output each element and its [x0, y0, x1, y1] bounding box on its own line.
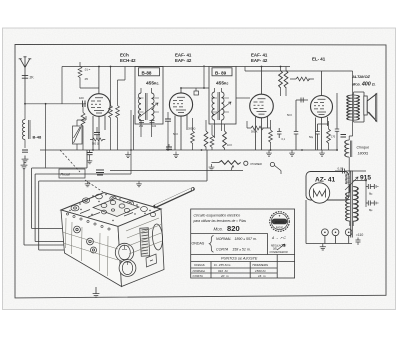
svg-text:B- 89: B- 89 [215, 71, 227, 76]
tube under chassis 2 [119, 260, 136, 277]
resistor R3 screen [78, 67, 82, 78]
resistor R15 [251, 126, 263, 130]
AZ-41 box [306, 172, 349, 201]
svg-text:Rosal: Rosal [61, 173, 70, 177]
mains capacitor C10 [356, 238, 361, 246]
svg-text:820: 820 [227, 224, 240, 233]
svg-text:Choque: Choque [357, 146, 370, 150]
svg-text:170: 170 [331, 136, 336, 139]
IF can B-89 [209, 67, 236, 125]
chassis edge holes [66, 213, 110, 230]
wire to rectifier [335, 170, 366, 171]
svg-text:REGULACIÓN: REGULACIÓN [271, 245, 287, 248]
svg-text:20 m: 20 m [220, 274, 229, 278]
border frame [15, 44, 386, 298]
svg-text:B-88: B-88 [142, 71, 152, 76]
svg-text:1800Ω: 1800Ω [358, 152, 369, 156]
ground [209, 164, 215, 170]
capacitor C15 [277, 128, 282, 138]
capacitor C4 [87, 153, 93, 155]
heater wire [306, 200, 352, 244]
trimmer arrow B-89 [212, 102, 232, 117]
svg-text:A → ↗ C: A → ↗ C [271, 236, 286, 240]
svg-text:TRIMMERS: TRIMMERS [252, 263, 268, 267]
volume potentiometer [219, 161, 241, 165]
svg-text:ECH-42: ECH-42 [120, 58, 136, 63]
capacitor C5 [165, 119, 171, 121]
coil L4 [152, 93, 155, 120]
ground [320, 244, 326, 250]
switch S1 [244, 161, 248, 165]
tube V3 EAF-41 [250, 67, 274, 151]
capacitor C3 grid [83, 101, 86, 108]
resistor R13 [210, 135, 214, 147]
chassis ground [95, 287, 97, 290]
svg-text:ONDAS: ONDAS [194, 263, 205, 267]
svg-text:ALTAVOZ: ALTAVOZ [351, 74, 371, 79]
choke coil [345, 140, 349, 157]
svg-text:250: 250 [139, 125, 144, 128]
svg-text:NORMAL: NORMAL [193, 269, 206, 273]
svg-text:8µ: 8µ [369, 192, 373, 196]
tube under chassis [115, 243, 133, 261]
svg-text:3000Ω: 3000Ω [188, 128, 196, 131]
svg-text:EAF- 41: EAF- 41 [251, 53, 268, 58]
output transformer T2 [347, 95, 353, 120]
ground [319, 150, 325, 156]
capacitor C8 filter [366, 184, 374, 189]
ground [85, 181, 90, 187]
svg-text:PUNTOS DE AJUSTE: PUNTOS DE AJUSTE [221, 257, 258, 261]
resistor R7 [284, 71, 288, 88]
svg-text:ECh: ECh [120, 53, 129, 58]
pilot lamp P2 [332, 229, 339, 236]
svg-text:500 K: 500 K [251, 131, 258, 134]
trimmer C12 [150, 121, 155, 123]
electrolytic can [140, 228, 150, 256]
svg-text:F.I. 455 Kc/s: F.I. 455 Kc/s [214, 263, 231, 267]
svg-text:ONDAS: ONDAS [192, 242, 205, 246]
resistor R14 [223, 131, 227, 148]
capacitor C21 tone [335, 93, 339, 150]
capacitor C7 [341, 135, 347, 138]
svg-text:50μ: 50μ [309, 136, 314, 139]
svg-text:POWER: POWER [251, 162, 263, 166]
svg-text:EAF- 42: EAF- 42 [175, 58, 192, 63]
trimmer C13 [194, 91, 199, 95]
svg-text:.01 =: .01 = [84, 68, 91, 72]
svg-text:.05: .05 [84, 77, 88, 81]
coil L5 [212, 92, 215, 120]
chassis right face [118, 209, 164, 287]
wire AVC run [131, 110, 134, 174]
svg-text:10 K: 10 K [227, 144, 232, 147]
svg-text:16 m: 16 m [258, 274, 266, 278]
wire antenna to grid [25, 103, 86, 105]
svg-text:100: 100 [79, 96, 84, 100]
ground [22, 156, 29, 163]
chassis face shading [62, 218, 162, 276]
svg-text:Circuito esquemático eléctrico: Circuito esquemático eléctrico [194, 214, 241, 218]
chassis left face [61, 210, 122, 287]
chassis top face [61, 193, 161, 227]
pilot lamp P1 [322, 229, 329, 236]
IF can B-88 [135, 67, 163, 125]
wire run 1 [32, 150, 87, 229]
tube V4 EL-41 [311, 71, 333, 150]
trimmer box [59, 169, 104, 178]
B+ wire [245, 67, 350, 72]
ground [266, 150, 272, 156]
resistor R5 [191, 131, 195, 143]
ground [173, 152, 179, 158]
svg-text:50 K: 50 K [287, 114, 292, 117]
capacitor C20 [343, 169, 345, 174]
resistor R4 [204, 131, 208, 147]
svg-text:EL- 41: EL- 41 [312, 57, 326, 62]
capacitor C14 [166, 147, 172, 149]
svg-text:EAF- 41: EAF- 41 [175, 53, 192, 58]
svg-text:CONDENSADOR: CONDENSADOR [270, 251, 288, 254]
ground bus [40, 149, 338, 151]
svg-text:DEL: DEL [273, 249, 278, 251]
svg-text:8µ: 8µ [369, 208, 373, 212]
oscillator coil L2 [73, 116, 87, 150]
svg-text:0,1: 0,1 [282, 138, 286, 141]
resistor R1 [109, 106, 113, 118]
title block [191, 209, 295, 278]
dashed link [60, 150, 80, 172]
svg-text:NORMAL 1890 a 557 m.: NORMAL 1890 a 557 m. [216, 237, 257, 241]
svg-text:EAF- 42: EAF- 42 [251, 58, 268, 63]
top bus wire [62, 67, 290, 104]
adjust arrow [345, 177, 358, 190]
wire B-89 to V3 grid [236, 97, 250, 99]
svg-text:para utilizar las tensiones de: para utilizar las tensiones de ≈ Pilas [193, 219, 247, 223]
svg-text:MOD.: MOD. [214, 227, 223, 232]
coil L1 B-48 [22, 120, 25, 140]
capacitor C17 cathode [315, 124, 328, 150]
logo [270, 212, 290, 232]
svg-text:≈110: ≈110 [356, 233, 363, 237]
svg-text:IBERIA: IBERIA [275, 220, 284, 224]
svg-text:RADIO: RADIO [276, 226, 283, 229]
resistor R8 [296, 77, 310, 81]
capacitor C9 filter [366, 201, 374, 206]
antenna [19, 57, 32, 104]
tube V2 EAF-41 [169, 88, 192, 150]
wire run 2 [35, 174, 131, 242]
wire grid bus [181, 65, 209, 91]
wire run 3 [39, 150, 207, 250]
ground [87, 158, 92, 164]
junction dots top bus [98, 66, 100, 68]
coil L6 [222, 92, 225, 120]
resistor R17 [93, 138, 104, 141]
trimmer arrow B-88 [138, 103, 158, 118]
rectifier V5 AZ-41 [309, 183, 329, 203]
capacitor C19 coupling [301, 98, 303, 103]
side hole [152, 224, 164, 251]
power transformer T1 [351, 171, 353, 238]
speaker [364, 92, 377, 122]
wire AVC down-run [45, 104, 47, 168]
left face sockets [74, 226, 97, 253]
svg-text:2K: 2K [30, 76, 35, 80]
resistor R9 [269, 130, 273, 142]
ground [125, 152, 131, 158]
resistor R16 [81, 113, 85, 127]
svg-text:CORTA: CORTA [193, 274, 203, 278]
svg-text:CORTA 158 a 51 m.: CORTA 158 a 51 m. [216, 248, 251, 252]
svg-text:B-48: B-48 [33, 135, 42, 140]
tube V1 ECH-42 [88, 67, 111, 151]
chassis top components [71, 194, 156, 217]
resistor R11 cathode [327, 129, 331, 143]
coil L3 [138, 93, 141, 120]
resistor R6 [279, 71, 283, 88]
capacitor C18 [94, 133, 100, 135]
wire AF line [110, 170, 243, 172]
tuning shaft [155, 189, 193, 207]
svg-text:1500 Kc: 1500 Kc [255, 269, 267, 273]
svg-text:910 Kc: 910 Kc [218, 269, 229, 273]
ground [289, 150, 295, 156]
svg-text:500 Ω: 500 Ω [92, 143, 99, 146]
svg-text:50 K: 50 K [173, 133, 178, 136]
svg-text:100: 100 [152, 125, 157, 128]
ground [21, 162, 28, 169]
ground [136, 181, 141, 187]
dashed link 2 [85, 180, 103, 192]
lamp P3 [345, 229, 352, 236]
capacitor C1 2K [22, 76, 28, 79]
capacitor C2 [22, 150, 28, 152]
capacitor C16 grid [294, 100, 308, 150]
chassis bracket [146, 254, 157, 267]
trimmer C11 [139, 121, 144, 123]
resistor R2 [116, 106, 120, 118]
